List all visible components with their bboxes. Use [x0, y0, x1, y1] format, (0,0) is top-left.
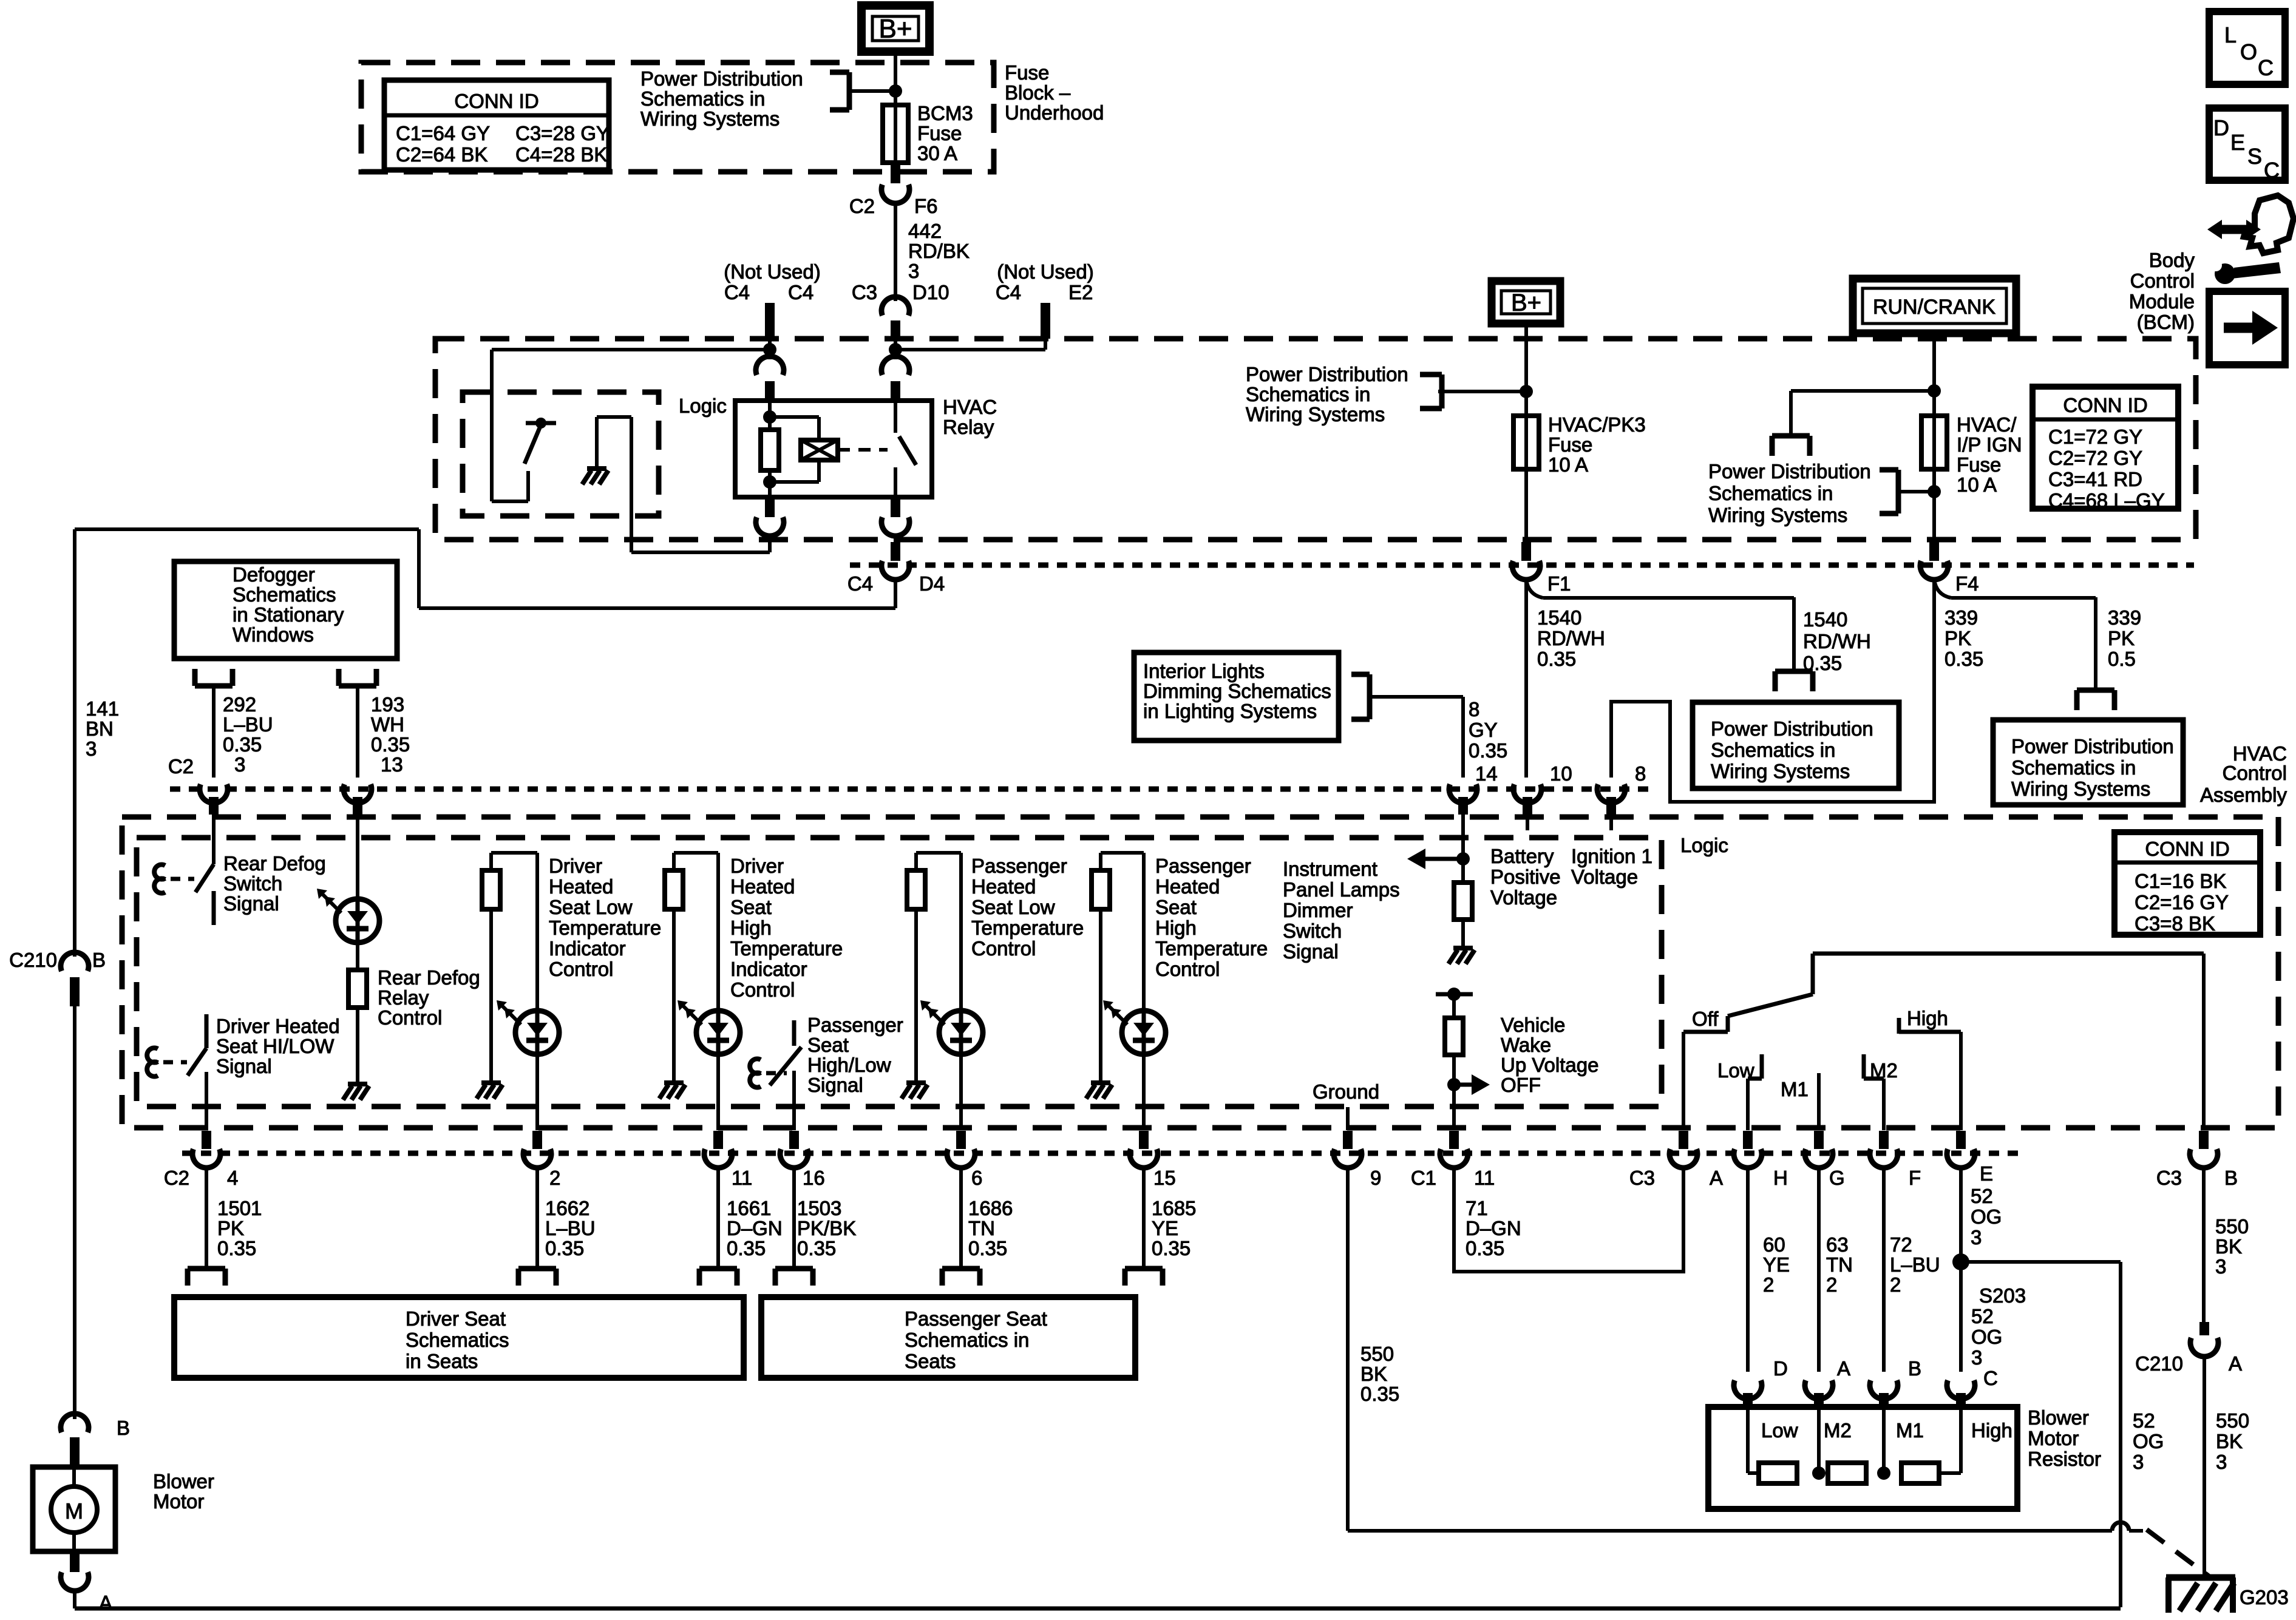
svg-text:Wiring Systems: Wiring Systems [1711, 760, 1850, 782]
svg-text:0.35: 0.35 [797, 1237, 836, 1259]
svg-text:2: 2 [1826, 1273, 1837, 1296]
svg-text:TN: TN [1826, 1253, 1853, 1276]
svg-text:0.35: 0.35 [968, 1237, 1007, 1259]
svg-text:0.35: 0.35 [1944, 648, 1983, 670]
svg-text:HVAC/PK3: HVAC/PK3 [1548, 413, 1646, 436]
svg-text:Block –: Block – [1005, 81, 1071, 104]
svg-text:0.35: 0.35 [1537, 648, 1576, 670]
svg-text:C4: C4 [788, 281, 813, 303]
svg-text:Driver: Driver [549, 855, 602, 877]
svg-text:I/P IGN: I/P IGN [1957, 433, 2022, 456]
svg-text:Ground: Ground [1313, 1080, 1379, 1103]
svg-text:A: A [1710, 1167, 1723, 1189]
svg-text:Signal: Signal [223, 892, 279, 915]
svg-text:6: 6 [971, 1167, 982, 1189]
svg-text:0.35: 0.35 [1469, 739, 1507, 762]
svg-text:Blower: Blower [153, 1470, 214, 1493]
svg-text:C4: C4 [724, 281, 750, 303]
svg-text:Motor: Motor [153, 1490, 204, 1513]
svg-text:RD/WH: RD/WH [1537, 627, 1605, 649]
svg-text:F6: F6 [914, 195, 938, 217]
svg-text:2: 2 [549, 1167, 560, 1189]
svg-text:Passenger: Passenger [1155, 855, 1251, 877]
svg-text:0.35: 0.35 [1803, 652, 1842, 674]
svg-text:M2: M2 [1824, 1419, 1852, 1442]
svg-text:D: D [2213, 115, 2229, 140]
svg-text:10 A: 10 A [1957, 473, 1997, 496]
svg-text:L: L [2224, 22, 2237, 47]
svg-text:Power Distribution: Power Distribution [2011, 735, 2174, 757]
svg-text:Seat Low: Seat Low [971, 896, 1055, 918]
svg-text:Instrument: Instrument [1283, 858, 1377, 880]
svg-text:Heated: Heated [1155, 875, 1220, 898]
svg-text:3: 3 [86, 737, 97, 760]
svg-text:C2: C2 [168, 755, 194, 778]
svg-text:Relay: Relay [943, 416, 994, 438]
svg-text:C3=8 BK: C3=8 BK [2135, 912, 2215, 935]
svg-text:YE: YE [1152, 1217, 1178, 1239]
svg-text:CONN ID: CONN ID [454, 90, 538, 112]
svg-text:Schematics in: Schematics in [640, 87, 765, 110]
svg-text:RD/BK: RD/BK [908, 240, 970, 262]
svg-text:E: E [1980, 1162, 1993, 1185]
svg-text:C3: C3 [1629, 1167, 1655, 1189]
svg-text:193: 193 [371, 693, 404, 716]
svg-text:PK/BK: PK/BK [797, 1217, 856, 1239]
svg-text:Passenger: Passenger [807, 1014, 903, 1036]
svg-text:D: D [1773, 1357, 1788, 1380]
svg-text:BCM3: BCM3 [917, 102, 973, 124]
svg-text:1662: 1662 [545, 1197, 589, 1219]
svg-text:Schematics in: Schematics in [2011, 756, 2136, 779]
svg-text:High: High [1155, 917, 1197, 939]
svg-text:Seat Low: Seat Low [549, 896, 633, 918]
svg-text:M1: M1 [1896, 1419, 1924, 1442]
svg-text:Power Distribution: Power Distribution [640, 67, 803, 90]
svg-text:C2=72 GY: C2=72 GY [2048, 447, 2142, 469]
svg-text:Schematics: Schematics [233, 583, 336, 606]
svg-text:CONN ID: CONN ID [2145, 838, 2229, 860]
svg-text:Heated: Heated [730, 875, 795, 898]
svg-text:0.35: 0.35 [217, 1237, 256, 1259]
svg-text:C: C [2258, 55, 2274, 80]
svg-text:Fuse: Fuse [1005, 61, 1049, 84]
svg-text:Seat: Seat [807, 1034, 849, 1056]
svg-text:15: 15 [1153, 1167, 1176, 1189]
svg-text:0.35: 0.35 [1152, 1237, 1190, 1259]
svg-text:Fuse: Fuse [1548, 433, 1592, 456]
svg-text:11: 11 [732, 1167, 752, 1189]
svg-text:F: F [1909, 1167, 1921, 1189]
svg-text:0.35: 0.35 [1360, 1383, 1399, 1405]
svg-text:Driver: Driver [730, 855, 784, 877]
svg-text:550: 550 [2216, 1409, 2249, 1432]
svg-text:Signal: Signal [807, 1074, 863, 1096]
svg-text:C1=64 GY: C1=64 GY [396, 122, 490, 144]
svg-text:292: 292 [223, 693, 256, 716]
svg-text:Temperature: Temperature [730, 937, 843, 960]
svg-text:(Not Used): (Not Used) [724, 260, 821, 283]
svg-text:Voltage: Voltage [1571, 866, 1638, 888]
svg-text:A: A [1837, 1357, 1850, 1380]
svg-text:B: B [92, 949, 106, 971]
svg-text:L–BU: L–BU [1890, 1253, 1940, 1276]
svg-text:0.35: 0.35 [223, 733, 262, 756]
svg-text:S203: S203 [1979, 1284, 2026, 1307]
svg-text:30 A: 30 A [917, 142, 957, 164]
svg-text:Relay: Relay [378, 986, 429, 1009]
svg-text:C2: C2 [164, 1167, 189, 1189]
svg-text:52: 52 [1971, 1305, 1994, 1327]
svg-text:Control: Control [2223, 762, 2287, 784]
svg-text:C210: C210 [9, 949, 57, 971]
svg-text:Signal: Signal [1283, 940, 1339, 963]
svg-text:3: 3 [2215, 1255, 2226, 1278]
svg-text:Control: Control [1155, 958, 1220, 980]
svg-text:L–BU: L–BU [545, 1217, 596, 1239]
svg-text:C3=41 RD: C3=41 RD [2048, 468, 2142, 490]
svg-text:RUN/CRANK: RUN/CRANK [1873, 296, 1995, 319]
svg-text:Control: Control [730, 978, 795, 1001]
svg-text:C2=16 GY: C2=16 GY [2135, 891, 2229, 913]
svg-text:Wiring Systems: Wiring Systems [640, 107, 779, 130]
svg-text:F1: F1 [1547, 572, 1571, 595]
svg-text:OG: OG [1971, 1205, 2002, 1228]
svg-text:in Seats: in Seats [406, 1350, 478, 1372]
svg-text:Seat: Seat [730, 896, 772, 918]
svg-text:B+: B+ [878, 14, 912, 44]
svg-text:M1: M1 [1781, 1078, 1809, 1100]
svg-text:Rear Defog: Rear Defog [378, 966, 480, 989]
svg-text:Schematics in: Schematics in [905, 1329, 1029, 1351]
svg-text:Wiring Systems: Wiring Systems [1708, 504, 1847, 526]
svg-text:(BCM): (BCM) [2137, 311, 2195, 333]
svg-text:550: 550 [2215, 1215, 2249, 1238]
svg-text:C3: C3 [852, 281, 877, 303]
svg-text:C4=68 L–GY: C4=68 L–GY [2048, 489, 2165, 512]
svg-text:B+: B+ [1511, 290, 1541, 316]
svg-text:3: 3 [908, 260, 919, 282]
svg-text:Indicator: Indicator [549, 937, 626, 960]
svg-text:Heated: Heated [549, 875, 613, 898]
svg-text:Up Voltage: Up Voltage [1501, 1054, 1598, 1076]
svg-text:S: S [2247, 144, 2262, 169]
svg-text:Blower: Blower [2028, 1406, 2089, 1429]
svg-text:339: 339 [1944, 606, 1978, 629]
svg-text:in Stationary: in Stationary [233, 603, 344, 626]
svg-text:3: 3 [2216, 1451, 2227, 1473]
svg-text:339: 339 [2108, 606, 2141, 629]
svg-text:B: B [1908, 1357, 1921, 1380]
svg-text:CONN ID: CONN ID [2063, 394, 2147, 416]
svg-text:C1=72 GY: C1=72 GY [2048, 425, 2142, 448]
svg-text:PK: PK [1944, 627, 1971, 649]
svg-text:G: G [1829, 1167, 1845, 1189]
svg-text:0.35: 0.35 [1466, 1237, 1504, 1259]
svg-text:High: High [1907, 1007, 1948, 1029]
svg-text:OG: OG [1971, 1326, 2002, 1348]
svg-text:Windows: Windows [233, 623, 314, 646]
svg-text:D4: D4 [919, 572, 945, 595]
svg-text:O: O [2240, 39, 2257, 64]
svg-text:9: 9 [1370, 1167, 1381, 1189]
svg-text:Dimming Schematics: Dimming Schematics [1143, 680, 1331, 702]
svg-text:8: 8 [1469, 698, 1479, 720]
svg-text:1685: 1685 [1152, 1197, 1196, 1219]
svg-text:Wake: Wake [1501, 1034, 1551, 1056]
svg-text:C: C [2264, 158, 2280, 183]
svg-text:3: 3 [1971, 1226, 1982, 1249]
svg-text:1540: 1540 [1803, 608, 1847, 631]
svg-text:Control: Control [971, 937, 1036, 960]
svg-text:High/Low: High/Low [807, 1054, 891, 1076]
svg-text:550: 550 [1360, 1343, 1394, 1365]
svg-text:D10: D10 [912, 281, 949, 303]
svg-text:Positive: Positive [1490, 866, 1561, 888]
svg-text:Schematics in: Schematics in [1246, 383, 1370, 405]
svg-text:72: 72 [1890, 1233, 1912, 1256]
svg-text:63: 63 [1826, 1233, 1849, 1256]
svg-text:C210: C210 [2135, 1352, 2183, 1375]
svg-text:OFF: OFF [1501, 1074, 1541, 1096]
svg-text:C4=28 BK: C4=28 BK [515, 143, 607, 166]
svg-text:Wiring Systems: Wiring Systems [1246, 403, 1385, 425]
svg-text:YE: YE [1763, 1253, 1790, 1276]
svg-text:TN: TN [968, 1217, 995, 1239]
svg-text:Power Distribution: Power Distribution [1711, 717, 1873, 740]
svg-text:C1=16 BK: C1=16 BK [2135, 870, 2226, 892]
svg-text:0.35: 0.35 [371, 733, 410, 756]
svg-text:1661: 1661 [727, 1197, 771, 1219]
svg-text:B: B [2224, 1167, 2238, 1189]
svg-text:60: 60 [1763, 1233, 1785, 1256]
svg-text:E2: E2 [1068, 281, 1093, 303]
svg-text:A: A [99, 1591, 112, 1614]
svg-text:RD/WH: RD/WH [1803, 630, 1871, 652]
svg-text:BK: BK [1360, 1363, 1387, 1385]
svg-text:Signal: Signal [216, 1055, 272, 1077]
svg-text:C2=64 BK: C2=64 BK [396, 143, 487, 166]
svg-text:Dimmer: Dimmer [1283, 899, 1353, 921]
svg-text:1503: 1503 [797, 1197, 841, 1219]
svg-text:Off: Off [1692, 1008, 1719, 1030]
svg-text:2: 2 [1763, 1273, 1774, 1296]
svg-text:Power Distribution: Power Distribution [1246, 363, 1408, 385]
svg-text:BK: BK [2215, 1235, 2242, 1258]
svg-text:F4: F4 [1955, 572, 1979, 595]
svg-text:Switch: Switch [1283, 920, 1342, 942]
svg-text:Resistor: Resistor [2028, 1448, 2101, 1470]
svg-text:A: A [2229, 1352, 2242, 1375]
svg-text:3: 3 [1971, 1346, 1982, 1369]
svg-text:HVAC: HVAC [943, 396, 997, 418]
svg-text:Power Distribution: Power Distribution [1708, 460, 1871, 483]
svg-text:Logic: Logic [679, 395, 727, 417]
svg-text:Seat: Seat [1155, 896, 1197, 918]
svg-text:2: 2 [1890, 1273, 1901, 1296]
svg-text:C1: C1 [1411, 1167, 1436, 1189]
svg-text:141: 141 [86, 697, 119, 720]
svg-text:Voltage: Voltage [1490, 886, 1557, 909]
svg-text:Fuse: Fuse [917, 122, 962, 144]
svg-text:0.35: 0.35 [727, 1237, 766, 1259]
svg-text:HVAC/: HVAC/ [1957, 413, 2017, 436]
svg-text:C4: C4 [847, 572, 873, 595]
svg-text:PK: PK [217, 1217, 244, 1239]
svg-text:C4: C4 [996, 281, 1021, 303]
svg-text:OG: OG [2133, 1430, 2164, 1452]
svg-text:H: H [1773, 1167, 1788, 1189]
svg-text:Low: Low [1761, 1419, 1798, 1442]
svg-text:Low: Low [1717, 1059, 1754, 1082]
svg-text:Indicator: Indicator [730, 958, 807, 980]
svg-text:M: M [65, 1499, 83, 1523]
svg-text:High: High [730, 917, 772, 939]
svg-text:0.35: 0.35 [545, 1237, 584, 1259]
svg-text:Control: Control [378, 1006, 442, 1029]
svg-text:Defogger: Defogger [233, 563, 315, 586]
svg-text:Interior Lights: Interior Lights [1143, 660, 1265, 682]
svg-text:BN: BN [86, 717, 114, 740]
svg-text:C: C [1983, 1367, 1998, 1389]
svg-text:13: 13 [381, 753, 403, 776]
svg-text:52: 52 [1971, 1185, 1993, 1207]
svg-text:1686: 1686 [968, 1197, 1013, 1219]
svg-text:Fuse: Fuse [1957, 453, 2001, 476]
svg-text:in Lighting Systems: in Lighting Systems [1143, 700, 1317, 722]
svg-text:Module: Module [2129, 290, 2195, 313]
svg-text:3: 3 [2133, 1451, 2144, 1473]
svg-text:10: 10 [1550, 762, 1572, 785]
svg-text:Schematics in: Schematics in [1708, 482, 1833, 504]
svg-text:4: 4 [227, 1167, 238, 1189]
svg-text:52: 52 [2133, 1409, 2155, 1432]
svg-text:Assembly: Assembly [2200, 784, 2288, 806]
svg-text:G203: G203 [2240, 1586, 2289, 1608]
svg-text:C3: C3 [2156, 1167, 2182, 1189]
svg-text:10 A: 10 A [1548, 453, 1588, 476]
svg-text:High: High [1971, 1419, 2012, 1442]
svg-text:E: E [2230, 130, 2245, 155]
svg-text:M2: M2 [1870, 1059, 1898, 1082]
svg-text:Switch: Switch [223, 872, 282, 895]
svg-text:BK: BK [2216, 1430, 2243, 1452]
svg-text:Battery: Battery [1490, 845, 1554, 867]
svg-text:Control: Control [2130, 269, 2195, 292]
svg-text:Panel Lamps: Panel Lamps [1283, 878, 1400, 901]
svg-text:C2: C2 [849, 195, 875, 217]
svg-text:Seat HI/LOW: Seat HI/LOW [216, 1035, 335, 1057]
svg-text:Heated: Heated [971, 875, 1036, 898]
svg-text:Schematics in: Schematics in [1711, 739, 1835, 761]
svg-text:Control: Control [549, 958, 613, 980]
svg-text:Temperature: Temperature [549, 917, 661, 939]
svg-text:Passenger Seat: Passenger Seat [905, 1307, 1047, 1330]
svg-text:Logic: Logic [1680, 834, 1728, 856]
svg-text:11: 11 [1474, 1167, 1495, 1189]
svg-text:16: 16 [803, 1167, 825, 1189]
svg-text:71: 71 [1466, 1197, 1488, 1219]
svg-text:D–GN: D–GN [727, 1217, 783, 1239]
svg-text:1540: 1540 [1537, 606, 1581, 629]
svg-text:Driver Heated: Driver Heated [216, 1015, 340, 1037]
svg-text:Driver Seat: Driver Seat [406, 1307, 506, 1330]
svg-text:Rear Defog: Rear Defog [223, 852, 326, 875]
svg-text:442: 442 [908, 220, 942, 242]
svg-text:Body: Body [2149, 249, 2195, 271]
svg-text:WH: WH [371, 713, 404, 736]
svg-text:Motor: Motor [2028, 1427, 2079, 1449]
svg-text:L–BU: L–BU [223, 713, 273, 736]
svg-text:C3=28 GY: C3=28 GY [515, 122, 610, 144]
svg-text:8: 8 [1635, 762, 1646, 785]
svg-text:Temperature: Temperature [1155, 937, 1268, 960]
svg-text:Temperature: Temperature [971, 917, 1084, 939]
svg-text:Passenger: Passenger [971, 855, 1067, 877]
svg-text:Wiring Systems: Wiring Systems [2011, 778, 2150, 800]
svg-text:GY: GY [1469, 719, 1498, 741]
svg-text:Ignition 1: Ignition 1 [1571, 845, 1652, 867]
svg-text:0.5: 0.5 [2108, 648, 2136, 670]
svg-text:Schematics: Schematics [406, 1329, 509, 1351]
svg-text:(Not Used): (Not Used) [997, 260, 1094, 283]
svg-text:Underhood: Underhood [1005, 101, 1104, 124]
svg-text:1501: 1501 [217, 1197, 262, 1219]
svg-text:D–GN: D–GN [1466, 1217, 1521, 1239]
svg-text:Vehicle: Vehicle [1501, 1014, 1565, 1036]
svg-text:14: 14 [1475, 762, 1498, 785]
svg-text:Seats: Seats [905, 1350, 956, 1372]
svg-text:PK: PK [2108, 627, 2135, 649]
svg-text:3: 3 [234, 753, 245, 776]
svg-text:B: B [117, 1417, 130, 1439]
